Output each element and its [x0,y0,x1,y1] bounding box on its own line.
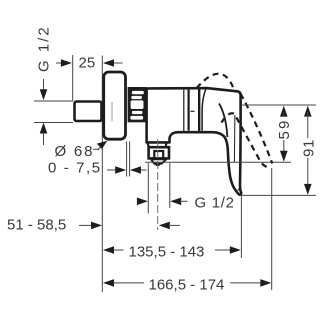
outlet tip [151,159,166,163]
inlet pipe extension line bottom [34,122,73,124]
inlet union pipe [75,102,102,122]
escutcheon (wall plate, side view) [104,72,126,139]
dimension 135,5 - 143 [103,246,114,254]
outlet nut inner face [154,151,163,158]
cartridge divider ring 1 [188,90,190,131]
union nut (knurled) [128,87,147,122]
svg-text:135,5 - 143: 135,5 - 143 [129,243,205,260]
dashed lever raised position: outer edge [241,94,273,164]
dimension 25 left arrow [56,62,62,64]
node reference line (escutcheon front plane) [101,56,103,293]
outlet nut [149,147,169,158]
cartridge ring thin line [183,90,185,132]
inlet pipe extension line top [34,100,73,102]
outlet G 1/2 extension lines [147,163,149,214]
extension line outlet bottom level [145,161,291,163]
svg-text:166,5 - 174: 166,5 - 174 [149,276,225,293]
G 1/2 inlet dimension arrows [43,79,45,92]
outlet G 1/2 dimension [138,200,139,202]
lever lower edge curve [219,104,227,138]
extension line lever tip vertical [240,196,242,258]
dashed lever raised position: inner edge and tip [222,113,271,168]
dimension 25 arrow [104,62,123,64]
extension line lever tip level [240,194,316,196]
dimension 59 [280,106,288,117]
svg-text:51 - 58,5: 51 - 58,5 [7,217,66,234]
svg-text:91: 91 [300,139,317,157]
cartridge divider ring 2 [198,88,200,131]
mixer body with lever (solid outline) [147,88,242,195]
svg-text:G 1/2: G 1/2 [195,195,235,212]
outlet centerline [157,139,159,230]
lever highlight line [233,115,236,162]
extension line pipe left plane [72,55,74,101]
extension line handle top level [242,104,316,106]
dimension 0 - 7,5 extension lines [126,142,128,177]
svg-text:59: 59 [276,118,293,139]
extension line dashed lever tip vertical [271,168,273,290]
handle collar edge [202,88,206,131]
outlet neck [147,142,166,146]
cartridge tick [191,110,195,112]
dimension 166,5 - 174 [103,279,114,287]
svg-text:Ø 68: Ø 68 [55,143,95,160]
dashed lever raised position: top arc [197,74,234,89]
outlet opening [155,163,160,167]
svg-text:0 - 7,5: 0 - 7,5 [48,160,102,177]
svg-text:25: 25 [79,55,96,72]
hidden pipe edge [111,102,113,121]
svg-text:G 1/2: G 1/2 [36,25,53,72]
lever tip seam [238,187,241,191]
dimension 91 [304,106,312,117]
